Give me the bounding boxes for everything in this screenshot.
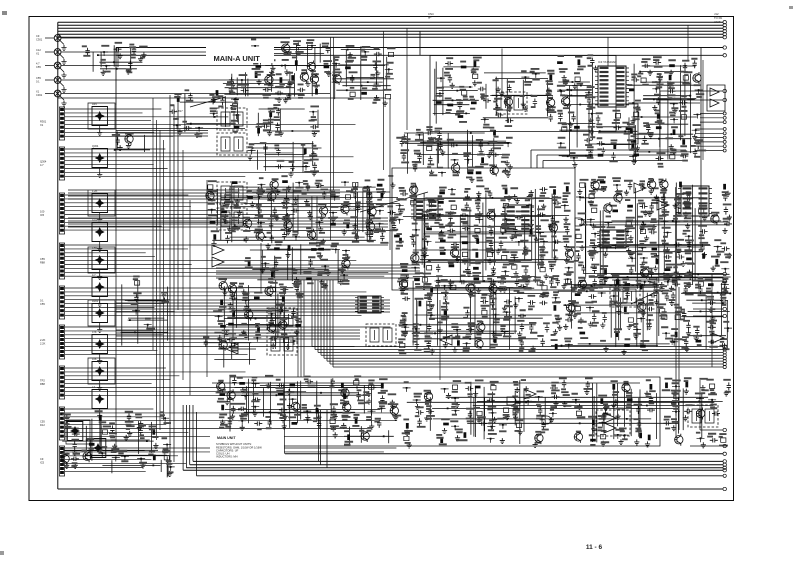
svg-text:C12: C12 — [36, 48, 41, 52]
svg-text:R88: R88 — [40, 382, 45, 386]
svg-text:4.7: 4.7 — [40, 163, 44, 167]
svg-text:47K: 47K — [92, 330, 97, 334]
svg-text:100: 100 — [40, 210, 45, 214]
svg-text:R301: R301 — [40, 120, 47, 124]
svg-text:1.2K: 1.2K — [92, 189, 98, 193]
svg-text:R45: R45 — [92, 102, 97, 106]
svg-text:10K: 10K — [92, 357, 97, 361]
svg-text:0.1: 0.1 — [40, 299, 44, 303]
svg-text:L-817: L-817 — [176, 109, 183, 113]
svg-text:INDUCTORS: MH: INDUCTORS: MH — [216, 455, 238, 459]
svg-text:C9: C9 — [36, 34, 40, 38]
svg-text:C55: C55 — [36, 65, 41, 69]
svg-text:C9: C9 — [40, 457, 44, 461]
svg-text:IC3 TA7640AP: IC3 TA7640AP — [598, 60, 617, 64]
svg-text:R88: R88 — [40, 261, 45, 265]
svg-text:8P: 8P — [428, 16, 432, 20]
svg-text:2.2K: 2.2K — [40, 338, 46, 342]
svg-text:Q304: Q304 — [40, 160, 47, 164]
svg-text:MAIN UNIT: MAIN UNIT — [217, 436, 236, 440]
svg-text:0.01: 0.01 — [92, 218, 98, 222]
svg-text:11 - 6: 11 - 6 — [586, 544, 603, 551]
svg-text:IC5: IC5 — [40, 461, 45, 465]
svg-text:C55: C55 — [40, 420, 45, 424]
svg-text:C55: C55 — [40, 257, 45, 261]
svg-text:R301: R301 — [92, 299, 99, 303]
svg-text:MAIN-A UNIT: MAIN-A UNIT — [214, 54, 261, 63]
svg-text:D12: D12 — [40, 423, 45, 427]
svg-text:IC5: IC5 — [40, 213, 45, 217]
svg-text:TP2: TP2 — [40, 379, 45, 383]
svg-text:X1: X1 — [40, 123, 44, 127]
svg-text:C55: C55 — [40, 302, 45, 306]
svg-text:X1: X1 — [36, 90, 40, 94]
svg-text:1.6-21 LINE: 1.6-21 LINE — [348, 207, 362, 211]
svg-text:C55: C55 — [92, 246, 97, 250]
svg-text:2.2K: 2.2K — [40, 342, 46, 346]
svg-text:UNIT: UNIT — [714, 20, 721, 24]
svg-text:Q304: Q304 — [92, 144, 99, 148]
svg-text:C301: C301 — [36, 93, 43, 97]
svg-text:X1: X1 — [36, 52, 40, 56]
svg-text:C55: C55 — [36, 76, 41, 80]
svg-text:4.7: 4.7 — [92, 273, 96, 277]
svg-text:C301: C301 — [36, 38, 43, 42]
svg-text:0.1: 0.1 — [36, 80, 40, 84]
svg-text:4.7: 4.7 — [36, 62, 40, 66]
